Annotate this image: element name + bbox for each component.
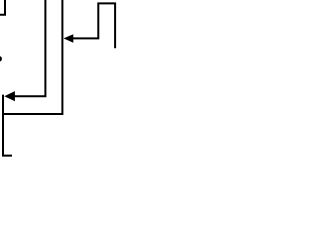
arrowhead of connector E pointing left [64, 34, 74, 43]
wire: left vertical bar with small foot (connector D) [3, 95, 12, 156]
node blob at left edge [0, 56, 2, 61]
wire: vertical line with elbow to left bar (connector C) [3, 0, 62, 114]
wire: elbow connector with left arrow (connector E) [73, 3, 115, 48]
wire: vertical line with elbow to left arrow (connector B) [14, 0, 45, 96]
arrowhead of connector B pointing left [4, 91, 15, 101]
box corner top-left (bottom-right corner of off-canvas box) [0, 0, 5, 15]
